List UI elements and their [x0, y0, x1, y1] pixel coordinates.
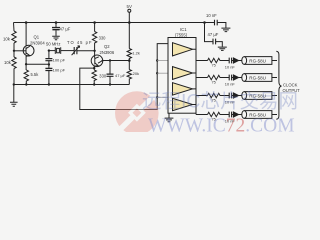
wire emitter node	[26, 64, 49, 70]
5V supply terminal	[127, 4, 133, 23]
svg-text:5V: 5V	[127, 4, 133, 9]
node decoupling branch	[203, 21, 206, 24]
resistor R4 330	[92, 23, 106, 51]
wire tap down	[48, 51, 50, 59]
ground left	[10, 85, 18, 107]
node C1 at rail	[55, 21, 58, 24]
resistor R5 330	[92, 68, 107, 84]
resistor R7 20k	[127, 61, 139, 85]
output row 3 wire	[196, 95, 208, 97]
capacitor C5 10nF rail decoupling	[206, 13, 226, 28]
node rail-5V	[128, 21, 131, 24]
capacitor C4 47uF	[107, 61, 126, 85]
svg-text:47 µF: 47 µF	[208, 32, 219, 37]
svg-text:72: 72	[226, 115, 246, 132]
svg-text:47 µF: 47 µF	[60, 26, 71, 31]
node R4 at rail	[93, 21, 96, 24]
svg-text:47 µF: 47 µF	[115, 73, 126, 78]
svg-text:75: 75	[212, 63, 216, 68]
node C3 at rail	[48, 83, 50, 85]
node Q2 base	[93, 50, 95, 52]
output row 2 wire	[196, 77, 208, 79]
arrow plug row 1	[233, 58, 241, 63]
svg-text:5.5k: 5.5k	[31, 72, 40, 77]
svg-text:10k: 10k	[4, 60, 12, 65]
svg-text:2N3906: 2N3906	[100, 50, 115, 55]
wire trimmer to Q2 base node	[77, 50, 95, 52]
svg-text:10 nF: 10 nF	[225, 64, 236, 69]
capacitor C2 100pF	[45, 58, 65, 65]
svg-text:75: 75	[212, 80, 216, 85]
svg-text:2N3904: 2N3904	[30, 40, 45, 45]
svg-text:.COM: .COM	[245, 115, 294, 132]
ground C1	[52, 36, 60, 40]
coax cable RG-58U row 4	[242, 111, 277, 119]
svg-text:20k: 20k	[133, 71, 139, 76]
node bus input 4	[156, 96, 158, 98]
buffer A4	[173, 98, 193, 110]
node bus input 2	[156, 59, 158, 61]
svg-text:远程IC芯片交易网: 远程IC芯片交易网	[142, 91, 298, 113]
wire Q2 collector	[102, 60, 130, 62]
node oscillator tap	[48, 49, 50, 51]
wire A1 output	[193, 49, 197, 60]
wire A2 output	[193, 73, 197, 78]
wire feedback bus from Q2 emitter	[80, 44, 168, 110]
svg-text:TO 45 pF: TO 45 pF	[67, 40, 92, 45]
node R5 at rail	[93, 83, 95, 85]
capacitor 10nF row 2	[225, 75, 236, 87]
svg-text:Q2: Q2	[104, 44, 110, 49]
wire tap to crystal	[49, 50, 55, 52]
buffer A2	[173, 67, 193, 80]
svg-text:RG-58U: RG-58U	[249, 58, 266, 63]
transistor Q1 2N3904	[23, 23, 45, 65]
svg-text:WWW.IC: WWW.IC	[148, 115, 226, 132]
buffer A1	[173, 43, 193, 56]
brace clock outputs	[276, 51, 281, 119]
svg-text:100 pF: 100 pF	[53, 67, 66, 72]
node bus input 3	[156, 72, 158, 74]
svg-text:10 nF: 10 nF	[225, 81, 236, 86]
transistor Q2 2N3906	[91, 44, 115, 68]
arrow plug row 2	[233, 75, 241, 80]
resistor R1 10k	[3, 31, 16, 43]
capacitor 10nF row 4	[225, 112, 236, 124]
node Q1 emitter	[25, 63, 27, 65]
svg-text:330: 330	[99, 36, 107, 41]
node 47uF tap	[109, 59, 111, 61]
resistor 75 ohm row 3	[208, 93, 229, 102]
node C4 at rail	[109, 83, 111, 85]
resistor 75 ohm row 2	[208, 75, 229, 84]
wire top 5V rail	[14, 22, 215, 24]
node between C2 C3	[48, 63, 50, 65]
svg-text:100 pF: 100 pF	[53, 58, 66, 63]
wire left divider column	[13, 23, 16, 85]
buffer A3	[173, 83, 193, 95]
resistor R6 1.2k	[127, 23, 140, 61]
ground IC1	[165, 113, 174, 122]
resistor 75 ohm row 4	[208, 112, 229, 121]
arrow plug row 4	[233, 112, 241, 117]
watermark logo circle	[115, 91, 159, 135]
resistor R2 10k	[4, 57, 16, 69]
arrow plug row 3	[233, 93, 241, 98]
wire crystal to trimmer	[61, 50, 74, 52]
wire Q1 base	[14, 50, 26, 52]
node base divider	[13, 50, 15, 52]
wire bus stub 4	[157, 96, 168, 98]
output row 4 wire	[196, 114, 208, 116]
watermark www.ic72.com	[148, 115, 295, 136]
svg-text:50 MHz: 50 MHz	[46, 42, 60, 47]
output row 1 wire	[196, 60, 208, 62]
node R3 at rail	[25, 83, 27, 85]
capacitor C1 47uF rail bypass	[52, 23, 71, 36]
ground C5	[221, 28, 230, 32]
svg-text:330: 330	[99, 74, 107, 79]
svg-text:(7555): (7555)	[175, 32, 188, 37]
wire bottom ground rail	[14, 84, 130, 86]
svg-text:10k: 10k	[3, 36, 11, 41]
wire A4 output	[193, 105, 197, 115]
node collector bias	[128, 59, 131, 62]
coax cable RG-58U row 1	[242, 57, 277, 65]
coax cable RG-58U row 3	[242, 92, 277, 100]
coax cable RG-58U row 2	[242, 74, 277, 82]
trimmer capacitor 5-45 pF	[67, 40, 92, 55]
buffer IC1 box	[168, 27, 196, 113]
capacitor 10nF row 1	[225, 58, 236, 70]
label CLOCK OUTPUTS	[283, 83, 303, 93]
svg-text:1.2k: 1.2k	[132, 50, 140, 55]
wire A3 output	[193, 89, 197, 96]
node Q1 collector at rail	[25, 21, 28, 24]
svg-text:10 nF: 10 nF	[206, 13, 217, 18]
resistor R3 5.5k	[24, 70, 39, 85]
capacitor C6 47uF decoupling	[205, 23, 223, 47]
node Q2 emitter	[93, 67, 95, 69]
node rail left	[13, 83, 15, 85]
capacitor 10nF row 3	[225, 93, 236, 105]
capacitor C3 100pF	[45, 65, 65, 85]
svg-text:Q1: Q1	[34, 34, 40, 39]
wire bus stub 2	[157, 60, 168, 62]
resistor 75 ohm row 1	[208, 58, 229, 67]
crystal Y1 50 MHz	[46, 42, 61, 54]
wire bus stub 3	[157, 72, 168, 74]
ground C6	[218, 47, 227, 50]
svg-text:RG-58U: RG-58U	[249, 75, 266, 80]
